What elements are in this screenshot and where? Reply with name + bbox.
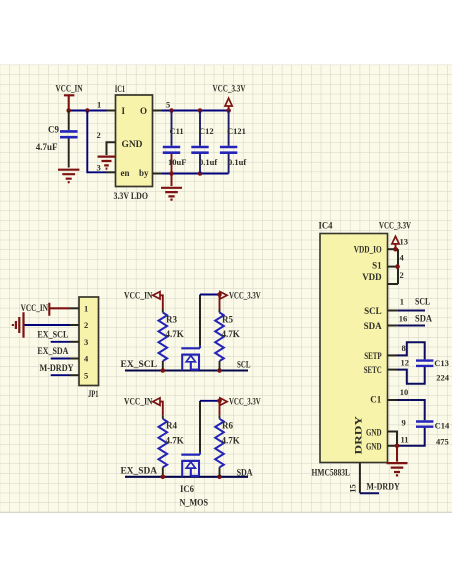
svg-text:0.1uf: 0.1uf: [228, 157, 246, 167]
pin 8 SETP stub and wire to C13 top: [388, 354, 398, 356]
svg-text:15: 15: [347, 484, 357, 493]
connector JP1 box: [79, 297, 99, 386]
IC1 pin 3 stub: [107, 171, 116, 173]
junction C11/top bus: [169, 108, 174, 113]
pin 10 C1 stub and wire to C14 top: [388, 399, 398, 401]
svg-text:5: 5: [84, 370, 88, 380]
power port VCC_3.3V (arrow up): [213, 83, 246, 110]
svg-text:4.7K: 4.7K: [222, 329, 240, 339]
resistor R4: [159, 415, 184, 477]
svg-text:1: 1: [400, 296, 404, 306]
svg-text:VDD_IO: VDD_IO: [354, 245, 382, 255]
JP1 pin 3 stub: [70, 341, 79, 343]
pin 16 SDA stub and wire: [388, 325, 398, 327]
power port VCC_3.3V (arrow right): [220, 290, 261, 300]
svg-text:2: 2: [97, 130, 101, 140]
wire EX_SDA bus: [125, 476, 248, 478]
svg-text:VCC_IN: VCC_IN: [21, 303, 49, 313]
svg-text:1: 1: [84, 304, 88, 314]
svg-text:SDA: SDA: [415, 314, 432, 324]
wire EX_SCL bus: [125, 369, 248, 371]
power port VCC_IN (bar style): [56, 83, 83, 110]
power port VCC_IN (arrow left): [124, 397, 163, 416]
transistor IC6 N-MOS (SDA): [181, 401, 200, 477]
ground at IC4: [396, 446, 398, 462]
svg-text:VDD: VDD: [362, 272, 382, 282]
junction at R6 bottom: [217, 475, 222, 480]
svg-text:1: 1: [97, 100, 101, 110]
svg-text:8: 8: [402, 343, 406, 353]
junction C11/ground bus: [169, 171, 174, 176]
ground under C9: [58, 170, 79, 183]
IC1 pin 2 stub: [107, 142, 116, 155]
svg-text:IC6: IC6: [180, 484, 194, 494]
svg-text:R5: R5: [222, 314, 233, 324]
svg-text:GND: GND: [122, 139, 144, 149]
svg-text:M-DRDY: M-DRDY: [40, 363, 74, 373]
JP1 pin 1 stub: [70, 307, 79, 309]
wire drain to VCC_3.3V: [200, 294, 220, 296]
svg-text:4.7K: 4.7K: [166, 329, 184, 339]
pin 11 GND stub and wire from C14 bottom: [388, 445, 398, 447]
svg-text:N_MOS: N_MOS: [180, 497, 209, 507]
svg-text:HMC5883L: HMC5883L: [312, 467, 351, 477]
wire drain to VCC_3.3V: [200, 400, 220, 402]
svg-text:3: 3: [97, 163, 101, 173]
svg-text:VCC_3.3V: VCC_3.3V: [229, 290, 261, 300]
pin 4 stub: [388, 266, 399, 268]
pin 13 stub: [388, 248, 399, 250]
svg-text:C14: C14: [435, 421, 450, 431]
svg-text:SCL: SCL: [415, 296, 430, 306]
pin 1 SCL stub and wire: [388, 310, 398, 312]
junction at R5 bottom: [217, 368, 222, 373]
svg-text:4.7K: 4.7K: [222, 435, 240, 445]
svg-text:VCC_3.3V: VCC_3.3V: [229, 397, 261, 407]
svg-text:EX_SCL: EX_SCL: [121, 359, 158, 369]
svg-text:VCC_IN: VCC_IN: [56, 83, 83, 93]
wire VCC_IN node to IC1 pin 1: [69, 110, 107, 112]
svg-text:GND: GND: [366, 427, 382, 437]
svg-text:VCC_IN: VCC_IN: [124, 397, 153, 407]
resistor R3: [159, 309, 184, 371]
svg-text:by: by: [139, 168, 149, 178]
power port VCC_3.3V (arrow up): [379, 220, 411, 249]
svg-text:224: 224: [436, 373, 450, 383]
wire joining pins 13-4-2: [397, 249, 399, 284]
svg-text:VCC_IN: VCC_IN: [124, 290, 153, 300]
svg-text:SDA: SDA: [237, 468, 253, 478]
svg-text:C11: C11: [170, 126, 184, 136]
junction at R4 bottom: [161, 475, 166, 480]
junction C12/top bus: [198, 108, 203, 113]
wire top bus pin5 to VCC_3.3V: [162, 110, 229, 112]
junction at VCC_IN/C9: [66, 108, 71, 113]
svg-text:3: 3: [84, 337, 88, 347]
svg-text:I: I: [122, 106, 126, 116]
transistor Q1 N-MOS (SCL): [181, 295, 200, 371]
svg-text:O: O: [140, 106, 147, 116]
op-amp / regulator IC1 box: [116, 95, 153, 187]
svg-text:9: 9: [402, 417, 406, 427]
junction at pin 11: [395, 444, 400, 449]
svg-text:C121: C121: [227, 126, 246, 136]
svg-text:IC4: IC4: [319, 220, 333, 230]
pin 15 DRDY stub (vertical): [359, 463, 361, 494]
svg-text:SCL: SCL: [237, 359, 251, 369]
svg-text:JP1: JP1: [88, 389, 99, 399]
svg-text:EX_SCL: EX_SCL: [37, 329, 68, 339]
IC1 by pin stub: [153, 173, 163, 175]
JP1 pin 4 stub: [70, 358, 79, 360]
junction C121/VCC_3.3V: [226, 108, 231, 113]
resistor R5: [215, 295, 240, 371]
svg-text:11: 11: [401, 435, 409, 445]
capacitor C14: [416, 421, 450, 447]
svg-text:C12: C12: [199, 126, 214, 136]
svg-text:en: en: [121, 168, 130, 178]
svg-text:SETC: SETC: [364, 365, 382, 375]
svg-text:EX_SDA: EX_SDA: [37, 346, 68, 356]
svg-text:12: 12: [401, 357, 410, 367]
power port VCC_IN at JP1 pin1 (rotated bar): [21, 303, 70, 316]
svg-text:SETP: SETP: [364, 351, 382, 361]
svg-text:2: 2: [84, 320, 88, 330]
capacitor C12: [191, 111, 217, 174]
junction at en branch: [85, 108, 90, 113]
svg-text:2: 2: [400, 270, 404, 280]
svg-text:S1: S1: [372, 261, 382, 271]
junction at pin13: [393, 247, 398, 252]
svg-text:SCL: SCL: [364, 306, 382, 316]
svg-text:13: 13: [400, 236, 409, 246]
junction C12/ground bus: [198, 171, 203, 176]
wire down to en pin: [87, 111, 106, 173]
ground under C11: [171, 174, 173, 187]
svg-text:16: 16: [399, 314, 408, 324]
capacitor C121: [220, 111, 246, 174]
wire JP1 pin2 to ground: [24, 324, 71, 326]
wire JP1 pin5: [51, 374, 70, 376]
wire JP1 pin3: [51, 341, 70, 343]
svg-text:4.7K: 4.7K: [166, 435, 184, 445]
ground at IC1 pin 2: [98, 157, 116, 169]
svg-text:C1: C1: [370, 394, 381, 404]
svg-text:C9: C9: [48, 125, 59, 135]
svg-text:GND: GND: [366, 442, 382, 452]
svg-text:R4: R4: [166, 421, 177, 431]
svg-text:3.3V LDO: 3.3V LDO: [114, 191, 149, 201]
pin 2 stub: [388, 283, 399, 285]
svg-text:SDA: SDA: [364, 321, 383, 331]
svg-text:4.7uF: 4.7uF: [36, 142, 58, 152]
svg-text:DRDY: DRDY: [353, 415, 363, 454]
junction at pin4: [395, 264, 400, 269]
IC1 pin 1 stub: [107, 110, 116, 112]
power port VCC_3.3V (arrow right): [220, 397, 261, 407]
pin 12 SETC stub and wire to C13 bottom: [388, 369, 398, 371]
wire M-DRDY: [360, 492, 379, 494]
svg-text:VCC_3.3V: VCC_3.3V: [379, 220, 411, 230]
capacitor C9: [36, 111, 78, 168]
JP1 pin 2 stub: [70, 324, 79, 326]
svg-text:VCC_3.3V: VCC_3.3V: [213, 83, 246, 93]
junction at R6 top: [217, 399, 222, 404]
svg-text:R3: R3: [166, 314, 177, 324]
svg-text:IC1: IC1: [115, 84, 126, 94]
junction at R3 bottom: [161, 368, 166, 373]
wire bottom bus by to C121: [162, 173, 229, 175]
svg-text:R6: R6: [222, 421, 233, 431]
resistor R6: [215, 401, 240, 477]
junction at R5 top: [217, 292, 222, 297]
svg-text:0.1uf: 0.1uf: [199, 157, 217, 167]
capacitor C11: [163, 111, 187, 174]
pin 9 GND stub: [388, 432, 398, 446]
svg-text:5: 5: [166, 100, 170, 110]
schematic sheet background: [0, 65, 452, 513]
JP1 pin 5 stub: [70, 374, 79, 376]
ground at JP1 pin 2 (rotated): [13, 312, 24, 338]
power port VCC_IN (arrow left): [124, 290, 163, 309]
svg-text:10uF: 10uF: [168, 157, 186, 167]
svg-text:10: 10: [400, 387, 409, 397]
svg-text:475: 475: [436, 437, 449, 447]
svg-text:C13: C13: [434, 358, 449, 368]
IC1 pin 5 stub: [153, 110, 163, 112]
capacitor C13: [416, 358, 450, 383]
svg-text:EX_SDA: EX_SDA: [121, 465, 158, 475]
wire JP1 pin4: [51, 358, 70, 360]
IC4 box: [320, 234, 388, 463]
svg-text:M-DRDY: M-DRDY: [366, 482, 400, 492]
